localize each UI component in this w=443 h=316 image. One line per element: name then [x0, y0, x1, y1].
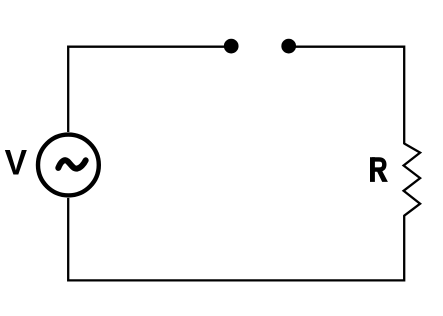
AC source sine tilde	[58, 160, 85, 168]
switch contact dot left	[224, 39, 239, 54]
switch contact dot right	[281, 39, 296, 54]
wire: top-left segment from left dot to top-left corner down to source top	[68, 47, 231, 132]
wire: left-bottom segment from source bottom along bottom to lower end of resistor	[68, 198, 404, 280]
label R	[370, 157, 388, 182]
AC source U1 circle	[38, 135, 99, 196]
resistor R zigzag body	[404, 144, 421, 216]
wire: right segment from upper end of resistor up and to right switch dot	[289, 47, 405, 144]
svg-text:V: V	[5, 144, 28, 183]
